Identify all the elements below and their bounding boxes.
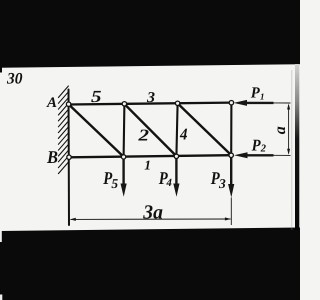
svg-text:3: 3: [146, 90, 156, 106]
svg-text:A: A: [46, 95, 57, 111]
svg-text:2: 2: [137, 126, 149, 145]
svg-text:3a: 3a: [142, 202, 163, 224]
svg-text:30: 30: [6, 71, 22, 88]
svg-text:2: 2: [260, 143, 267, 154]
svg-text:5: 5: [111, 176, 118, 191]
svg-text:B: B: [46, 147, 58, 167]
svg-text:a: a: [272, 126, 289, 134]
svg-text:P: P: [251, 136, 262, 155]
svg-text:1: 1: [260, 91, 265, 101]
svg-text:4: 4: [165, 177, 172, 189]
svg-text:P: P: [251, 85, 261, 102]
svg-text:3: 3: [218, 176, 226, 191]
svg-text:4: 4: [179, 125, 187, 144]
svg-text:1: 1: [144, 158, 151, 173]
svg-text:5: 5: [91, 87, 102, 106]
